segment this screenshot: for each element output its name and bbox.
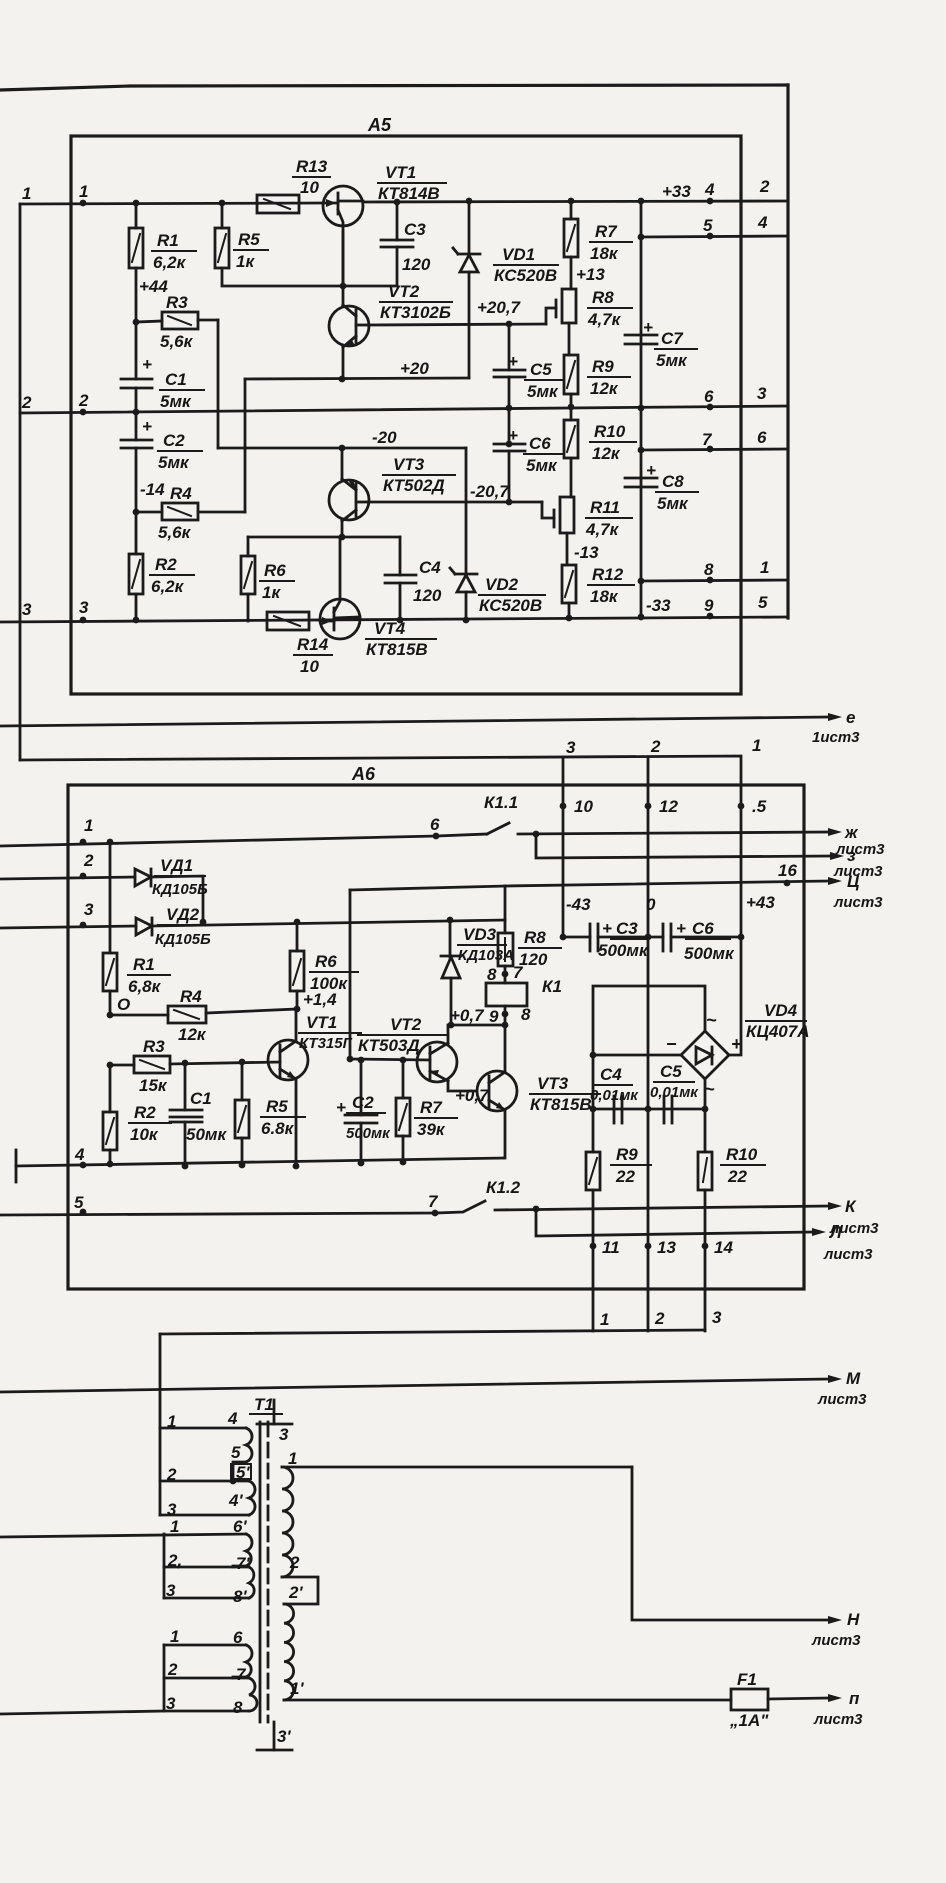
svg-text:2: 2 [759,177,770,196]
svg-text:R8: R8 [524,928,546,947]
svg-text:R5: R5 [238,230,260,249]
resistor R13 [257,157,330,213]
svg-text:5,6к: 5,6к [158,523,192,542]
diode VD1 A6 [135,856,208,922]
wire M line [0,1369,867,1408]
resistor R7 A6 [396,1060,457,1165]
svg-text:5мк: 5мк [527,382,559,401]
svg-text:9: 9 [489,1007,499,1026]
resistor R6 [241,537,294,621]
wire row3 -33 rail [0,617,788,622]
svg-text:C4: C4 [419,558,441,577]
fuse F1 [729,1670,863,1730]
wire C7 C8 column [638,198,645,621]
svg-text:4,7к: 4,7к [587,310,622,329]
capacitor C2 [121,413,202,512]
svg-text:C4: C4 [600,1065,622,1084]
node 3 row left [22,598,89,623]
svg-text:120: 120 [402,255,431,274]
svg-text:+: + [142,417,152,436]
wire bottom 123 row [160,1308,722,1334]
label +0,7 VT3 base [455,1086,490,1105]
svg-text:+: + [676,919,686,938]
node pin13 [645,1238,677,1257]
svg-text:+: + [508,426,518,445]
wire A6 row5 [0,1192,439,1216]
label A5 [367,115,392,135]
svg-text:10: 10 [300,178,319,197]
relay K1 [486,963,562,1026]
svg-text:КД105Б: КД105Б [152,881,208,898]
wire row1 +33 rail [20,201,788,204]
svg-text:2: 2 [166,1465,177,1484]
svg-text:e: e [846,708,855,727]
label +33 pin4 [662,177,770,204]
svg-text:5,6к: 5,6к [160,332,194,351]
svg-text:11: 11 [602,1238,620,1257]
svg-text:+44: +44 [139,277,168,296]
resistor R10 A6 [698,1145,765,1190]
svg-text:КС520В: КС520В [494,266,557,285]
svg-text:-13: -13 [574,543,599,562]
svg-text:VT2: VT2 [390,1015,422,1034]
wire R4 to +20 line [244,379,247,512]
svg-text:4,7к: 4,7к [585,520,620,539]
wire VT3 base link [448,1081,477,1091]
node A6 pin5 row [74,1193,86,1215]
resistor R1 A6 [103,839,170,1015]
svg-text:0,01мк: 0,01мк [650,1084,699,1101]
winding group3 [0,1627,257,1717]
svg-text:КТ3102Б: КТ3102Б [380,303,451,322]
capacitor C4 A6 [590,1065,639,1123]
svg-text:R9: R9 [616,1145,638,1164]
svg-text:500мк: 500мк [346,1125,391,1142]
svg-text:5: 5 [231,1443,241,1462]
svg-text:R2: R2 [134,1103,156,1122]
svg-text:14: 14 [714,1238,733,1257]
wire R3 to -20 line [217,320,220,448]
node A6 pin1 row [80,816,94,845]
transformer T1 label [250,1395,282,1414]
svg-text:О: О [117,995,130,1014]
svg-text:4': 4' [228,1491,243,1510]
svg-text:2: 2 [78,391,89,410]
zener VD1 [453,198,558,378]
resistor R3 [133,293,218,351]
svg-text:5мк: 5мк [158,453,190,472]
svg-text:0,01мк: 0,01мк [590,1087,639,1104]
svg-text:8: 8 [521,1005,531,1024]
wire right vertical bus [786,85,789,618]
svg-text:R13: R13 [296,157,328,176]
svg-text:8: 8 [704,560,714,579]
wire feed line to A6 [20,756,741,785]
svg-text:лист3: лист3 [817,1391,867,1408]
svg-text:6: 6 [704,387,714,406]
svg-text:6.8к: 6.8к [261,1119,295,1138]
svg-text:~: ~ [706,1010,717,1030]
svg-text:VT2: VT2 [388,282,420,301]
capacitor C5 A6 [650,1062,699,1123]
wire left connector bus [19,204,22,760]
svg-text:лист3: лист3 [811,1632,861,1649]
svg-text:12к: 12к [590,379,619,398]
svg-text:.5: .5 [752,797,767,816]
node pin11 [590,1238,620,1257]
svg-text:А6: А6 [351,764,376,784]
svg-text:К1: К1 [542,977,562,996]
capacitor C1 [121,322,204,415]
winding group1 [160,1409,255,1519]
label pin9 -33 [646,593,768,619]
capacitor C3 A6 [560,919,649,960]
transistor VT1 A6 [268,1009,361,1169]
svg-text:-43: -43 [566,895,591,914]
winding group2 [0,1517,254,1606]
svg-text:1: 1 [600,1310,609,1329]
label +44 [139,277,168,296]
wire bridge left link [590,1052,681,1059]
svg-text:К1.2: К1.2 [486,1178,521,1197]
svg-text:Ц: Ц [847,872,860,891]
svg-text:6: 6 [757,428,767,447]
wire pin8 row [641,558,788,583]
svg-text:F1: F1 [737,1670,757,1689]
svg-text:ж: ж [844,823,859,842]
svg-text:КС520В: КС520В [479,596,542,615]
svg-text:6,2к: 6,2к [151,577,185,596]
svg-text:1: 1 [84,816,93,835]
wire pin7 row [641,428,788,452]
svg-text:R5: R5 [266,1097,288,1116]
svg-text:+0,7: +0,7 [455,1086,490,1105]
resistor R3 A6 [107,1037,280,1095]
rectifier bridge VD4 [666,1001,809,1099]
svg-text:6,8к: 6,8к [128,977,162,996]
svg-text:VD3: VD3 [463,925,497,944]
capacitor C6 A6 [645,919,745,963]
svg-text:C7: C7 [661,329,684,348]
transistor VT1 [323,163,446,289]
wire relay column 3 [560,738,594,937]
svg-text:A5: A5 [367,115,392,135]
svg-text:2: 2 [289,1553,300,1572]
svg-text:C5: C5 [530,360,552,379]
svg-text:5мк: 5мк [657,494,689,513]
secondary tap 2 [282,1577,318,1604]
svg-text:6: 6 [233,1628,243,1647]
svg-text:R7: R7 [420,1098,443,1117]
svg-text:3': 3' [277,1727,291,1746]
svg-text:R3: R3 [166,293,188,312]
svg-text:Н: Н [847,1610,860,1629]
label -43 [566,895,591,914]
wire z line [533,831,884,880]
transistor VT2 A6 [358,1015,457,1082]
svg-text:500мк: 500мк [684,944,735,963]
resistor R8 A6 [498,928,561,983]
svg-text:C2: C2 [352,1093,374,1112]
svg-text:1ист3: 1ист3 [812,729,860,746]
svg-text:2,: 2, [167,1551,182,1570]
svg-text:Л: Л [828,1223,842,1242]
wire winding1 feed [159,1334,162,1428]
capacitor C7 [625,318,697,370]
svg-text:5': 5' [236,1463,250,1482]
svg-text:2: 2 [21,393,32,412]
svg-text:8': 8' [233,1587,247,1606]
svg-text:9: 9 [704,596,714,615]
svg-text:3: 3 [566,738,576,757]
wire relay column 1 [738,736,767,937]
svg-text:2: 2 [83,851,94,870]
svg-text:5: 5 [703,216,713,235]
svg-text:М: М [846,1369,861,1388]
block A5 border [71,136,741,694]
resistor R9 A6 [586,1145,651,1190]
svg-text:120: 120 [519,950,548,969]
diode VD3 [441,917,514,1029]
svg-text:К1.1: К1.1 [484,793,518,812]
svg-text:7: 7 [513,963,524,982]
transformer core [260,1422,268,1722]
svg-text:VT4: VT4 [374,619,406,638]
capacitor C5 [494,321,563,412]
svg-text:4: 4 [74,1145,85,1164]
wire top supply line [0,85,788,90]
svg-text:10к: 10к [130,1125,159,1144]
svg-text:1к: 1к [236,252,255,271]
resistor R4 A6 [110,987,297,1044]
svg-text:1: 1 [22,184,31,203]
node pin14 [702,1238,734,1257]
capacitor C8 [625,461,698,513]
svg-text:лист3: лист3 [835,841,885,858]
wire A6 row1 K1.1 line [0,815,440,846]
svg-text:КЦ407А: КЦ407А [746,1022,809,1041]
svg-text:C6: C6 [529,434,551,453]
svg-text:VD4: VD4 [764,1001,798,1020]
svg-text:R6: R6 [264,561,286,580]
resistor R14 [267,612,332,676]
svg-text:+: + [508,352,518,371]
resistor R7 [564,198,632,289]
wire +20 line [245,376,469,383]
svg-text:5мк: 5мк [656,351,688,370]
wire bridge right link [729,937,741,1055]
svg-text:C8: C8 [662,472,684,491]
svg-text:+: + [142,355,152,374]
resistor R8 trimmer [546,288,632,355]
svg-text:7: 7 [236,1665,247,1684]
svg-text:22: 22 [727,1167,747,1186]
wire VT2 base row [347,1056,430,1064]
wire bridge loop [593,986,705,1055]
wire +0,7 line [450,1006,508,1028]
wire L line [536,1209,873,1263]
svg-text:VД1: VД1 [160,856,193,875]
resistor R12 [562,565,634,621]
svg-text:-33: -33 [646,596,671,615]
svg-text:13: 13 [657,1238,676,1257]
svg-text:VD2: VD2 [485,575,519,594]
svg-text:18к: 18к [590,587,619,606]
svg-text:18к: 18к [590,244,619,263]
label -14 [140,480,165,499]
node A6 pin2 row [80,851,94,879]
svg-text:C3: C3 [616,919,638,938]
wire secondary out 1' [284,1699,731,1702]
svg-text:1: 1 [167,1412,176,1431]
svg-text:1: 1 [288,1449,297,1468]
label +43 [746,893,775,912]
label -20 [372,428,397,447]
svg-text:R2: R2 [155,555,177,574]
svg-text:39к: 39к [417,1120,446,1139]
svg-text:+: + [336,1098,346,1117]
block A6 border [68,785,804,1289]
resistor R1 [129,200,196,322]
transistor VT4 [320,537,436,659]
svg-text:-14: -14 [140,480,165,499]
svg-text:2: 2 [654,1309,665,1328]
svg-text:C3: C3 [404,220,426,239]
svg-text:R14: R14 [297,635,329,654]
capacitor C3 [343,199,431,286]
capacitor C4 [385,537,442,623]
wire VT3 emitter node [248,534,400,541]
svg-text:1: 1 [760,558,769,577]
label -20,7 [470,482,510,501]
svg-text:п: п [849,1689,860,1708]
svg-text:R9: R9 [592,357,614,376]
resistor R6 A6 [290,919,358,1009]
svg-text:R1: R1 [133,955,155,974]
svg-text:КТ814В: КТ814В [378,184,440,203]
wire R8 feed [504,886,507,933]
label +20 [400,359,429,378]
diode VD2 A6 [136,905,505,948]
svg-text:VT3: VT3 [393,455,425,474]
wire relay column 2 [645,737,679,1331]
svg-text:12к: 12к [178,1025,207,1044]
svg-text:7: 7 [428,1192,439,1211]
svg-text:1: 1 [79,182,88,201]
resistor R9 [564,355,630,410]
svg-text:10: 10 [574,797,593,816]
svg-text:R3: R3 [143,1037,165,1056]
core tap 3' bottom [257,1722,292,1750]
svg-text:+13: +13 [576,265,605,284]
svg-text:2: 2 [650,737,661,756]
svg-text:+43: +43 [746,893,775,912]
svg-text:VД2: VД2 [166,905,200,924]
svg-text:3: 3 [22,600,32,619]
svg-text:КТ815В: КТ815В [366,640,428,659]
svg-text:8: 8 [233,1698,243,1717]
svg-text:15к: 15к [139,1076,168,1095]
svg-text:6: 6 [430,815,440,834]
svg-text:+1,4: +1,4 [303,990,337,1009]
svg-text:0: 0 [646,895,656,914]
svg-text:-20,7: -20,7 [470,482,510,501]
svg-text:4: 4 [757,213,768,232]
svg-text:VT1: VT1 [385,163,416,182]
capacitor C2 A6 [336,1060,391,1166]
svg-text:R10: R10 [594,422,626,441]
svg-text:R8: R8 [592,288,614,307]
svg-text:1к: 1к [262,583,281,602]
svg-text:50мк: 50мк [186,1125,227,1144]
svg-text:2: 2 [167,1660,178,1679]
wire C line [350,861,883,1059]
svg-text:1': 1' [290,1679,304,1698]
svg-text:+33: +33 [662,182,691,201]
transistor VT3 A6 [477,1025,600,1158]
svg-text:R11: R11 [590,498,620,517]
svg-text:12к: 12к [592,444,621,463]
svg-text:1: 1 [170,1517,179,1536]
node 2 row left [21,391,89,415]
svg-text:5: 5 [758,593,768,612]
label 0 node [107,995,131,1018]
svg-text:C1: C1 [165,370,187,389]
svg-text:+20,7: +20,7 [477,298,522,317]
svg-text:КТ502Д: КТ502Д [383,476,445,495]
svg-text:лист3: лист3 [813,1711,863,1728]
label -13 [574,543,599,562]
svg-text:КТ815В: КТ815В [530,1095,592,1114]
svg-text:R6: R6 [315,952,337,971]
label 0 [646,895,656,914]
zener VD2 [450,448,545,623]
svg-text:3: 3 [712,1308,722,1327]
svg-text:К: К [845,1197,857,1216]
svg-text:120: 120 [413,586,442,605]
resistor R4 [133,484,245,542]
node A6 pin3 row [80,900,94,928]
wire e output line [0,708,860,746]
svg-text:-20: -20 [372,428,397,447]
wire N line [632,1467,861,1649]
wire C4 C5 row [590,1106,709,1113]
capacitor C6 [494,410,562,505]
resistor R5 A6 [235,1059,305,1169]
label +1,4 node [294,990,338,1012]
node 1 row left [22,182,88,206]
svg-text:3: 3 [279,1425,289,1444]
wire A6 row2 [0,877,135,879]
svg-text:2': 2' [288,1583,303,1602]
svg-text:500мк: 500мк [598,941,649,960]
svg-text:R12: R12 [592,565,624,584]
svg-text:3: 3 [757,384,767,403]
svg-text:R10: R10 [726,1145,758,1164]
svg-text:лист3: лист3 [833,894,883,911]
svg-text:−: − [666,1034,677,1054]
svg-text:+: + [602,919,612,938]
svg-text:R7: R7 [595,222,618,241]
svg-text:3: 3 [79,598,89,617]
wire A6 row3 [0,926,136,928]
label A6 [351,764,376,784]
svg-text:7: 7 [702,430,713,449]
resistor R5 [215,200,343,286]
svg-text:VD1: VD1 [502,245,535,264]
transistor VT3 [329,448,455,537]
svg-text:C6: C6 [692,919,714,938]
